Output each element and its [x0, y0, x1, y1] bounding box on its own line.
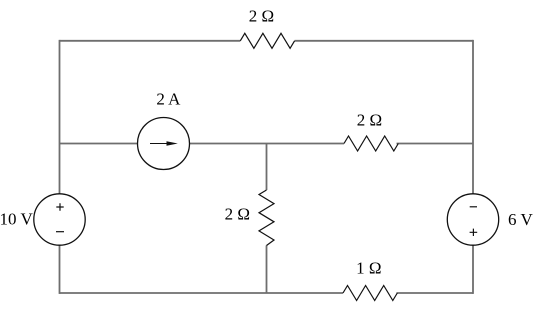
svg-text:2 Ω: 2 Ω: [225, 205, 250, 224]
resistor 2ohm middle vertical: [259, 190, 274, 246]
wire: right rail: [472, 40, 474, 294]
wire: left rail: [59, 40, 61, 294]
svg-text:2 Ω: 2 Ω: [357, 111, 382, 130]
resistor 1ohm bottom: [343, 286, 397, 301]
svg-text:10 V: 10 V: [0, 210, 33, 229]
voltage source 10V: [34, 194, 85, 245]
svg-text:2 Ω: 2 Ω: [249, 6, 274, 25]
voltage source 6V: [447, 194, 498, 245]
svg-text:2 A: 2 A: [156, 90, 181, 109]
wire: middle horizontal: [60, 143, 474, 145]
resistor 2ohm top: [240, 33, 294, 48]
wire: top rail: [60, 40, 474, 42]
svg-text:1 Ω: 1 Ω: [356, 258, 381, 277]
wire: middle vertical branch: [266, 144, 268, 294]
resistor 2ohm middle right: [344, 136, 398, 151]
svg-text:6 V: 6 V: [508, 210, 533, 229]
current source 2A: [138, 118, 190, 170]
wire: bottom rail: [60, 292, 474, 294]
